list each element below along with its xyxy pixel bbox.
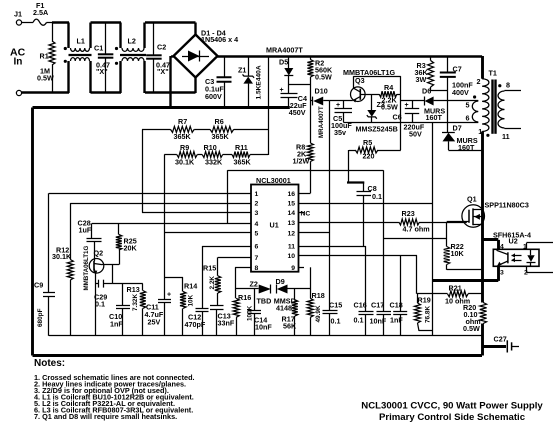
connector J1 terminal bottom xyxy=(16,90,21,95)
svg-text:1.5KE440A: 1.5KE440A xyxy=(256,65,263,99)
svg-text:R15: R15 xyxy=(203,264,216,273)
resistor R19 xyxy=(415,294,433,331)
svg-text:Z2: Z2 xyxy=(250,280,258,289)
wire R7 column to pin3 xyxy=(142,129,144,212)
wire C29 to collector node xyxy=(112,265,114,284)
wire aux sense column xyxy=(432,122,434,336)
svg-text:6: 6 xyxy=(466,114,470,123)
svg-text:16: 16 xyxy=(287,191,295,198)
svg-text:9: 9 xyxy=(291,265,295,272)
svg-text:D10: D10 xyxy=(315,86,328,95)
svg-text:76.8K: 76.8K xyxy=(425,306,432,323)
wire Q2 collector row xyxy=(102,264,119,266)
wire bulk positive rail xyxy=(218,55,483,57)
fuse F1 xyxy=(22,1,52,25)
svg-text:1nF: 1nF xyxy=(390,316,403,325)
resistor R16 xyxy=(233,289,253,336)
resistor R14 xyxy=(164,277,197,336)
wire pin6 net xyxy=(202,246,245,248)
svg-text:R16: R16 xyxy=(238,293,251,302)
svg-text:3: 3 xyxy=(500,270,504,277)
svg-text:365K: 365K xyxy=(212,132,230,141)
svg-text:8: 8 xyxy=(506,81,510,90)
svg-text:10K: 10K xyxy=(188,294,195,306)
resistor R23 xyxy=(399,209,467,234)
capacitor C9 xyxy=(34,193,55,335)
svg-text:"X": "X" xyxy=(157,67,169,76)
capacitor C29 xyxy=(94,280,113,309)
wire pin13 gate net xyxy=(304,222,399,224)
wire bottom rail segment A xyxy=(22,91,69,93)
svg-text:R6: R6 xyxy=(215,117,224,126)
svg-text:7. Q1 and D8 will require smal: 7. Q1 and D8 will require small heatsink… xyxy=(34,412,177,421)
svg-text:R5: R5 xyxy=(363,138,372,147)
svg-text:C27: C27 xyxy=(494,335,507,344)
svg-text:R18: R18 xyxy=(312,291,325,300)
svg-text:R19: R19 xyxy=(418,296,431,305)
svg-text:0.1: 0.1 xyxy=(331,317,341,326)
svg-text:30.1K: 30.1K xyxy=(52,252,72,261)
resistor R25 xyxy=(116,223,138,264)
wire D7 anode to drain xyxy=(448,150,482,152)
wire pin2 net xyxy=(70,203,245,205)
resistor R9 xyxy=(164,143,202,167)
svg-text:MMSZ5245B: MMSZ5245B xyxy=(356,125,398,134)
svg-text:680pF: 680pF xyxy=(37,308,44,327)
svg-text:MMBTA06LT1G: MMBTA06LT1G xyxy=(343,68,395,77)
resistor R1 xyxy=(37,23,55,94)
svg-text:C17: C17 xyxy=(371,301,384,310)
capacitor C7 xyxy=(440,56,474,97)
wire compensation row xyxy=(113,283,143,285)
svg-text:450V: 450V xyxy=(289,108,306,117)
svg-text:7.32K: 7.32K xyxy=(132,294,139,311)
resistor R20 xyxy=(463,303,487,334)
svg-text:+: + xyxy=(167,292,171,299)
svg-text:0.1: 0.1 xyxy=(372,192,382,201)
svg-text:400V: 400V xyxy=(452,88,469,97)
svg-text:2: 2 xyxy=(255,201,259,208)
svg-text:3: 3 xyxy=(255,210,259,217)
wire line sense feed xyxy=(268,56,270,155)
wire left ground rail xyxy=(31,108,34,356)
capacitor C2 xyxy=(146,23,170,94)
svg-text:TBD: TBD xyxy=(257,297,272,306)
zener Z3 xyxy=(356,94,398,133)
wire R2 to D10 column xyxy=(310,85,312,102)
resistor R18 xyxy=(307,289,324,336)
capacitor C10 xyxy=(109,284,130,336)
capacitor C4 xyxy=(280,85,308,118)
svg-text:R14: R14 xyxy=(184,282,197,291)
svg-text:1uF: 1uF xyxy=(79,226,92,235)
wire VCC column xyxy=(400,94,402,122)
svg-text:4148: 4148 xyxy=(276,304,292,313)
wire pin1 net xyxy=(49,193,246,195)
svg-text:R9: R9 xyxy=(180,143,189,152)
svg-text:D7: D7 xyxy=(453,124,462,133)
resistor R17 xyxy=(282,289,298,336)
label AC In xyxy=(10,47,26,68)
wire pin10 to CS node xyxy=(416,255,418,293)
capacitor C17 xyxy=(370,170,392,336)
wire opto emitter line xyxy=(433,279,499,282)
diode D9 xyxy=(274,277,311,313)
capacitor C16 xyxy=(354,246,374,336)
svg-text:R4: R4 xyxy=(384,83,393,92)
svg-text:C15: C15 xyxy=(329,301,342,310)
label MRA4007T xyxy=(266,46,303,55)
resistor R2 xyxy=(307,56,333,85)
wire ground bus xyxy=(33,106,290,109)
transistor Q3 xyxy=(343,68,395,103)
diode D6 xyxy=(401,87,479,106)
svg-text:In: In xyxy=(14,57,23,68)
wire clamp node xyxy=(431,90,448,92)
svg-text:365K: 365K xyxy=(234,158,252,167)
svg-text:49.9K: 49.9K xyxy=(315,305,322,322)
svg-text:33nF: 33nF xyxy=(218,319,235,328)
svg-text:J1: J1 xyxy=(14,10,22,19)
wire D5-R2 junction xyxy=(289,84,311,86)
diode D5 xyxy=(279,56,293,85)
capacitor C6 xyxy=(393,101,425,139)
svg-text:Q2: Q2 xyxy=(94,249,104,258)
wire pin8 net xyxy=(235,267,245,289)
svg-text:1N5406 x 4: 1N5406 x 4 xyxy=(201,35,238,44)
svg-text:0.5W: 0.5W xyxy=(463,324,480,333)
svg-text:0.1: 0.1 xyxy=(95,300,105,309)
svg-text:D6: D6 xyxy=(422,87,431,96)
label D6 MURS 160T xyxy=(424,107,445,123)
capacitor C1 xyxy=(94,23,113,94)
svg-text:NCL30001 CVCC, 90 Watt Power S: NCL30001 CVCC, 90 Watt Power Supply xyxy=(361,401,543,412)
capacitor C18 xyxy=(390,255,408,335)
svg-text:4.7 ohm: 4.7 ohm xyxy=(403,225,430,234)
svg-text:600V: 600V xyxy=(205,92,222,101)
wire pin4 net xyxy=(92,223,246,225)
svg-text:U2: U2 xyxy=(509,237,518,246)
svg-text:8: 8 xyxy=(255,265,259,272)
capacitor C14 xyxy=(248,289,273,336)
wire pin11 net xyxy=(304,246,366,248)
capacitor C13 xyxy=(210,306,235,336)
svg-text:NC: NC xyxy=(301,211,311,218)
transformer T1 xyxy=(466,56,522,141)
wire pin15 net xyxy=(304,203,433,205)
svg-text:L1: L1 xyxy=(77,37,85,46)
wire D10 to C5 emitter row xyxy=(330,100,353,102)
wire pin4 to vref line xyxy=(227,170,229,223)
svg-text:L2: L2 xyxy=(128,37,136,46)
capacitor C3 xyxy=(205,56,232,109)
svg-text:7: 7 xyxy=(255,255,259,262)
capacitor C5 xyxy=(331,101,352,137)
svg-text:11: 11 xyxy=(502,132,510,141)
svg-text:MRA4007T: MRA4007T xyxy=(266,46,303,55)
svg-text:C2: C2 xyxy=(157,43,166,52)
transistor Q2 xyxy=(83,246,104,336)
wire signal ground xyxy=(49,335,482,337)
resistor R5 xyxy=(349,122,401,183)
resistor R12 xyxy=(52,203,73,336)
resistor R7 xyxy=(142,117,210,141)
wire top rail segment C xyxy=(145,23,196,36)
svg-text:T1: T1 xyxy=(489,68,497,77)
svg-text:Q1: Q1 xyxy=(467,195,477,204)
svg-text:6: 6 xyxy=(255,244,259,251)
wire top rail segment B xyxy=(91,21,122,23)
svg-text:12: 12 xyxy=(287,231,295,238)
svg-text:20K: 20K xyxy=(124,244,138,253)
svg-text:2: 2 xyxy=(477,77,481,86)
svg-text:2.5A: 2.5A xyxy=(33,8,48,17)
resistor R6 xyxy=(210,117,268,141)
svg-text:1/2W: 1/2W xyxy=(293,157,310,166)
resistor R22 xyxy=(444,222,482,270)
wire vref line xyxy=(228,170,384,172)
svg-text:D5: D5 xyxy=(279,58,288,67)
wire bottom rail segment C xyxy=(145,77,196,93)
wire bottom ground bus xyxy=(33,354,483,357)
resistor R15 xyxy=(203,257,221,305)
svg-text:C9: C9 xyxy=(34,281,43,290)
svg-text:3W: 3W xyxy=(416,75,427,84)
connector J1 terminal top xyxy=(14,10,22,26)
svg-text:1: 1 xyxy=(255,191,259,198)
svg-text:4: 4 xyxy=(255,221,259,228)
svg-text:Notes:: Notes: xyxy=(34,358,65,369)
svg-text:10nF: 10nF xyxy=(255,323,272,332)
svg-text:1nF: 1nF xyxy=(110,320,123,329)
wire pin5 net xyxy=(164,232,245,234)
wire R9 column to pin5 xyxy=(164,155,166,234)
svg-text:Q3: Q3 xyxy=(355,76,365,85)
wire VCC rail to pin12 xyxy=(304,101,330,233)
svg-text:Primary Control Side Schematic: Primary Control Side Schematic xyxy=(379,412,526,423)
wire bridge negative to bus xyxy=(171,56,174,109)
resistor R11 xyxy=(232,143,268,167)
svg-text:C1: C1 xyxy=(94,44,103,53)
svg-text:25V: 25V xyxy=(148,318,161,327)
capacitor C15 xyxy=(323,233,343,336)
resistor R13 xyxy=(127,284,146,336)
inductor L1 xyxy=(64,23,92,94)
bridge rectifier D1-D4 xyxy=(174,29,239,78)
svg-text:C6: C6 xyxy=(393,113,402,122)
svg-text:MRA4007T: MRA4007T xyxy=(318,106,325,138)
wire pin10 net xyxy=(304,255,417,257)
svg-text:R1: R1 xyxy=(40,52,49,61)
wire CS row xyxy=(417,293,448,295)
wire pin9 riser xyxy=(310,267,312,289)
svg-text:R13: R13 xyxy=(127,285,140,294)
optocoupler U2 xyxy=(482,231,553,281)
svg-text:13: 13 xyxy=(287,220,295,227)
svg-text:0.5W: 0.5W xyxy=(315,73,332,82)
svg-text:11: 11 xyxy=(288,244,295,251)
svg-text:10: 10 xyxy=(287,253,295,260)
svg-text:160T: 160T xyxy=(426,113,443,122)
svg-text:15: 15 xyxy=(287,201,295,208)
capacitor C8 xyxy=(347,183,382,247)
svg-text:C16: C16 xyxy=(354,301,367,310)
diode D7 xyxy=(442,91,478,152)
resistor R10 xyxy=(202,143,232,167)
wire top rail segment A xyxy=(52,21,69,23)
zener Z2 xyxy=(235,280,271,306)
inductor L2 xyxy=(115,23,146,94)
capacitor C28 xyxy=(78,219,102,262)
zener Z1 xyxy=(238,56,263,109)
diode D10 xyxy=(310,86,330,138)
wire bottom rail segment B xyxy=(91,91,122,93)
svg-text:Z1: Z1 xyxy=(238,66,246,75)
svg-text:5: 5 xyxy=(466,101,470,110)
wire drain line xyxy=(481,132,484,356)
IC U1 NCL30001 xyxy=(246,176,311,272)
resistor R3 xyxy=(415,56,434,91)
svg-text:14: 14 xyxy=(287,210,295,217)
svg-text:R7: R7 xyxy=(178,117,187,126)
notes text block xyxy=(34,358,195,421)
wire pin7 net xyxy=(218,257,246,259)
svg-text:U1: U1 xyxy=(270,221,279,230)
svg-text:Z3: Z3 xyxy=(377,100,385,109)
capacitor C11 xyxy=(145,233,172,336)
wire aux return line xyxy=(343,122,478,124)
svg-text:0.5W: 0.5W xyxy=(37,74,54,83)
svg-text:35v: 35v xyxy=(334,128,346,137)
svg-text:10nF: 10nF xyxy=(370,317,387,326)
svg-text:5: 5 xyxy=(255,231,259,238)
svg-text:0.1: 0.1 xyxy=(354,316,364,325)
svg-text:SPP11N80C3: SPP11N80C3 xyxy=(485,201,529,210)
wire Q3 collector to VCC node xyxy=(353,76,400,94)
capacitor C27 xyxy=(482,335,519,353)
resistor R4 xyxy=(372,83,401,112)
resistor R21 xyxy=(445,284,482,306)
title text xyxy=(361,401,543,423)
wire pin3 net xyxy=(142,212,246,214)
wire R22 link xyxy=(383,238,446,240)
svg-text:10K: 10K xyxy=(451,249,465,258)
capacitor C12 xyxy=(185,246,209,336)
svg-text:R23: R23 xyxy=(402,209,415,218)
svg-text:50V: 50V xyxy=(409,130,422,139)
resistor R8 xyxy=(293,101,314,194)
transistor Q1 xyxy=(447,195,529,228)
